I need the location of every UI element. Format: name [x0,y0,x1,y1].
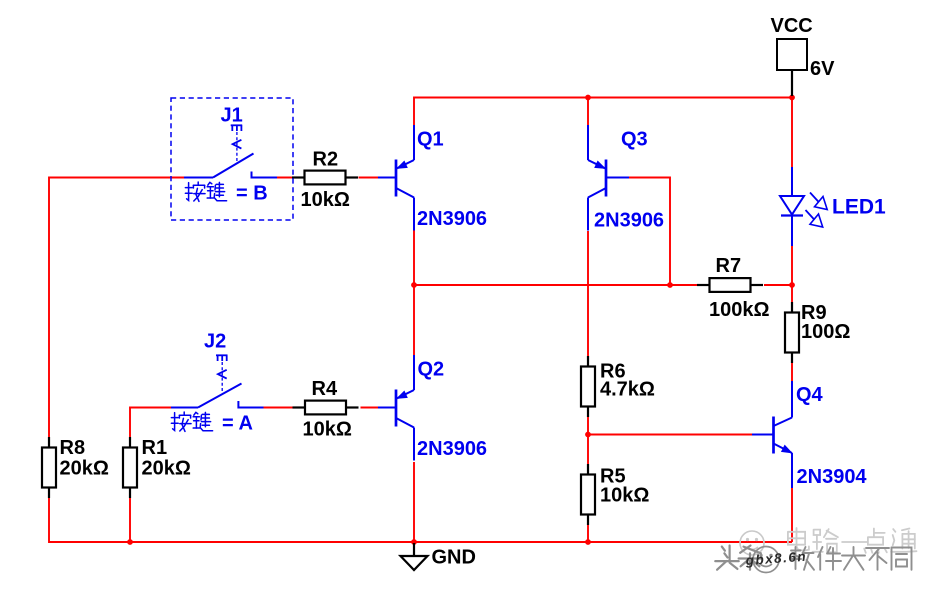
resistor R5 10k [581,464,595,525]
watermark: gray text toutiao [715,546,738,570]
junction: LED cathode / R7 / R9 node [789,282,795,288]
svg-text:Q3: Q3 [621,129,648,151]
resistor R8 20k [42,437,56,498]
svg-text:VCC: VCC [771,15,813,37]
wire: node to R5 top [587,435,589,467]
resistor R4 10k [293,401,359,415]
svg-text:GND: GND [432,547,476,569]
wire: top VCC rail [414,97,792,99]
wire: VCC to LED [791,98,793,168]
wire: J1 right to R2 [277,177,294,179]
svg-text:6V: 6V [810,58,835,80]
svg-text:20kΩ: 20kΩ [60,458,109,480]
wire: node to R9 top [791,285,793,302]
svg-text:2N3906: 2N3906 [417,208,487,230]
resistor R9 100 [785,302,799,363]
wire: Q1 collector drop [413,230,415,285]
wire: Q3 emitter to top rail [587,97,589,127]
svg-text:= A: = A [222,413,253,435]
svg-text:Q1: Q1 [417,129,444,151]
svg-text:Q4: Q4 [796,384,824,406]
wire: Q3 collector down to R6 [587,231,589,358]
junction: Q3 base node [667,282,673,288]
wire: left rail upper [49,178,184,439]
wire: R5 bottom to ground rail [587,524,589,542]
svg-text:= B: = B [236,183,268,205]
wire: R1 bottom to ground rail [129,497,131,543]
junction: ground rail / R5 [585,539,591,545]
svg-text:J2: J2 [204,331,226,353]
wire: left rail lower (below R8) [48,497,50,543]
wire: R4 to Q2 base [361,407,384,409]
resistor R2 10k [292,171,358,185]
watermark: light text dianlu yidiantong [788,528,809,551]
label J2: anjian = A [171,412,191,431]
wire: Q3 base to node [629,178,670,286]
junction: Q1 collector node [411,282,417,288]
LED LED1 [780,167,827,246]
wire: R7 right to LED node [764,284,792,286]
resistor R6 4.7k [581,356,595,417]
resistor R1 20k [123,437,137,498]
transistor Q4 2N3904 [752,381,792,488]
wire: bottom ground rail [49,541,792,543]
watermark: gray text ruanjian dabutong [791,547,815,570]
svg-text:J1: J1 [221,105,243,127]
wire: Q4 emitter to ground rail [791,488,793,542]
watermark: dark smiley logo [753,547,779,573]
svg-text:R8: R8 [60,437,86,459]
svg-text:4.7kΩ: 4.7kΩ [600,379,655,401]
wire: R6 bottom to node [587,416,589,435]
wire: Q1 emitter to top rail [413,97,415,126]
label J1: anjian = B [185,182,205,201]
wire: R9 bottom to Q4 collector [791,362,793,382]
junction: top rail / VCC [789,95,795,101]
svg-text:Q2: Q2 [418,359,445,381]
wire: R1 top to J2 [130,408,171,439]
svg-text:LED1: LED1 [832,196,886,219]
resistor R7 100k [697,278,763,292]
transistor Q1 2N3906 [378,125,414,231]
wire: node to Q4 base [588,434,752,436]
svg-text:20kΩ: 20kΩ [142,458,191,480]
junction: ground rail / Q2 collector / GND [411,539,417,545]
svg-text:100Ω: 100Ω [801,321,850,343]
wire: R2 to Q1 base [359,177,384,179]
junction: top rail / Q3 emitter [585,95,591,101]
svg-text:10kΩ: 10kΩ [600,485,649,507]
watermark: light smiley logo [740,531,764,555]
switch J2 pushbutton [171,355,264,407]
svg-text:R7: R7 [716,255,742,277]
power VCC symbol [771,15,836,96]
svg-text:2N3906: 2N3906 [594,210,664,232]
wire: Q2 emitter riser [413,285,415,355]
switch J1 dashed selection box [171,98,293,220]
wire: LED cathode down to node [791,246,793,285]
svg-text:2N3906: 2N3906 [417,438,487,460]
svg-text:2N3904: 2N3904 [797,466,868,488]
junction: ground rail / R1 [127,539,133,545]
svg-text:R2: R2 [313,149,339,171]
switch J1 pushbutton [184,125,277,177]
ground GND symbol [401,543,476,570]
svg-text:10kΩ: 10kΩ [301,189,350,211]
wire: middle rail Q1 collector to R7 [414,284,698,286]
wire: J2 right to R4 [264,407,297,409]
svg-text:R4: R4 [312,378,338,400]
junction: R6/R5/Q4-base node [585,432,591,438]
svg-text:10kΩ: 10kΩ [303,419,352,441]
svg-text:R1: R1 [142,437,168,459]
transistor Q3 2N3906 [588,125,629,231]
transistor Q2 2N3906 [378,355,414,461]
wire: Q2 collector to ground rail [413,462,415,542]
svg-text:100kΩ: 100kΩ [709,299,770,321]
